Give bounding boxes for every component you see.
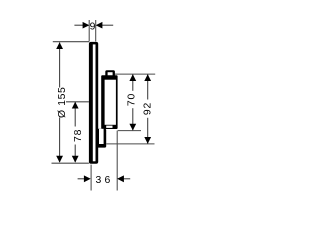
svg-text:92: 92 xyxy=(143,102,154,115)
svg-text:70: 70 xyxy=(127,93,138,106)
svg-text:9: 9 xyxy=(90,22,96,33)
svg-text:36: 36 xyxy=(96,175,114,186)
svg-text:78: 78 xyxy=(73,129,84,142)
svg-text:Ø 155: Ø 155 xyxy=(57,87,68,118)
